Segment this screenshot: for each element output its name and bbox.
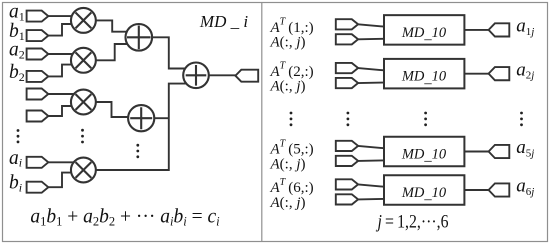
ellipsis dots right outputs column [520, 112, 523, 127]
input port a1 [27, 11, 49, 22]
panel divider [261, 3, 263, 242]
ellipsis dots right labels column [290, 112, 293, 127]
svg-text:MD_10: MD_10 [401, 25, 447, 43]
svg-text:A(:, j): A(:, j) [270, 195, 306, 211]
wire adder S2 output to bus [152, 117, 169, 119]
wire input ports to block MD_10 row 5 [358, 146, 384, 161]
svg-text:MD_10: MD_10 [401, 69, 447, 87]
wire input ports to block MD_10 row 2 [358, 68, 384, 83]
ellipsis dots below adder S2 [136, 144, 139, 158]
svg-text:AT (1,:): AT (1,:) [270, 17, 314, 36]
multiplier M1 [71, 8, 96, 33]
svg-text:MD _ i: MD _ i [199, 12, 248, 31]
wire input ports to block MD_10 row 6 [358, 184, 384, 199]
wire block MD_10 row 1 to output port [464, 29, 488, 31]
input port A(:,j) row 1 [336, 34, 358, 44]
wire multiplier M3 to adder S2 [88, 102, 134, 117]
block MD_10 row 2 [384, 59, 464, 89]
wire adder S1 to final adder S3 upper input [150, 37, 190, 68]
adder S1 [126, 24, 153, 51]
adder S2 [128, 105, 154, 131]
wire final adder S3 to output port ci [207, 74, 236, 76]
output port ci [235, 70, 258, 82]
input port AT(5,:) [336, 141, 358, 151]
wire multiplier M2 to adder S1 [88, 44, 131, 60]
adder S3 final [183, 63, 209, 89]
output port a6j [489, 183, 510, 196]
wire block MD_10 row 5 to output port [464, 151, 488, 153]
ellipsis dots right input ports column [347, 112, 350, 127]
svg-text:AT (5,:): AT (5,:) [270, 138, 314, 157]
svg-text:AT (2,:): AT (2,:) [270, 60, 314, 79]
svg-text:j = 1,2,···,6: j = 1,2,···,6 [376, 212, 449, 232]
block MD_10 row 6 [384, 175, 464, 205]
wire multiplier M4 via bus to final adder S3 lower input [94, 84, 190, 170]
wire a2 to multiplier M2 [48, 53, 81, 55]
input port input5 [27, 89, 49, 100]
input port AT(2,:) [336, 63, 358, 73]
wire ai to multiplier M4 [48, 161, 81, 163]
input port b1 [27, 30, 49, 41]
wire block MD_10 row 6 to output port [464, 189, 488, 191]
input port b2 [27, 71, 49, 82]
svg-text:MD_10: MD_10 [401, 147, 447, 165]
block MD_10 row 1 [384, 15, 464, 45]
multiplier M2 [71, 48, 96, 73]
input port A(:,j) row 2 [336, 78, 358, 88]
wire a1 to multiplier M1 [48, 15, 81, 17]
input port A(:,j) row 6 [336, 194, 358, 204]
input port input6 [27, 111, 49, 122]
wire input5 to multiplier M3 [48, 93, 81, 95]
svg-text:A(:, j): A(:, j) [270, 156, 306, 172]
svg-text:A(:, j): A(:, j) [270, 35, 306, 51]
wire b1 to multiplier M1 [48, 24, 81, 36]
wire input6 to multiplier M3 [48, 106, 81, 116]
input port AT(1,:) [336, 19, 358, 29]
ellipsis dots below multiplier column [81, 129, 84, 144]
wire b2 to multiplier M2 [48, 65, 81, 77]
input port AT(6,:) [336, 179, 358, 189]
input port A(:,j) row 5 [336, 156, 358, 166]
input port bi [27, 182, 49, 193]
output port a1j [489, 23, 510, 36]
wire input ports to block MD_10 row 1 [358, 24, 384, 39]
ellipsis dots right blocks column [424, 112, 427, 127]
wire block MD_10 row 2 to output port [464, 73, 488, 75]
svg-text:MD_10: MD_10 [401, 185, 447, 203]
ellipsis dots below b column [17, 129, 20, 143]
input port a2 [27, 49, 49, 60]
wire multiplier M1 to adder S1 [88, 20, 131, 31]
svg-text:A(:, j): A(:, j) [270, 78, 306, 94]
svg-text:AT (6,:): AT (6,:) [270, 177, 314, 196]
block MD_10 row 5 [384, 137, 464, 167]
input port ai [27, 157, 49, 168]
wire bi to multiplier M4 [48, 173, 81, 188]
multiplier M3 [71, 90, 96, 115]
output port a5j [489, 145, 510, 158]
output port a2j [489, 67, 510, 80]
multiplier M4 [71, 158, 96, 183]
